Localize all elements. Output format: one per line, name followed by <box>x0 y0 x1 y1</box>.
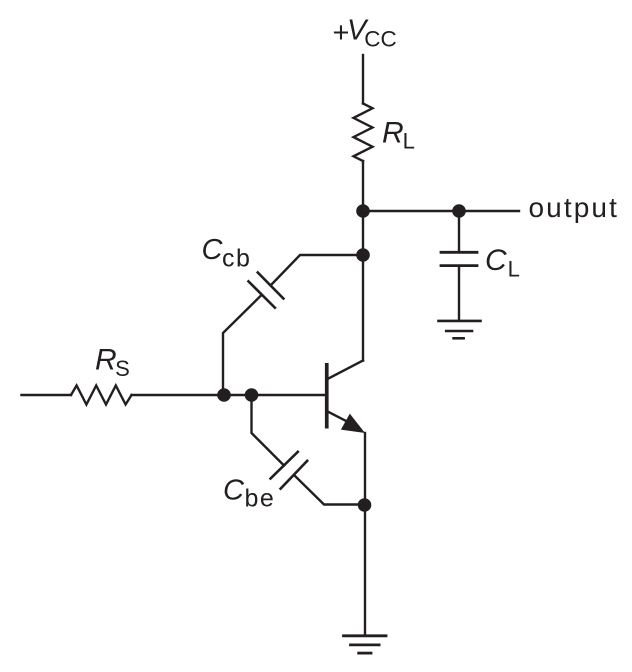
wire Ccb base side <box>223 295 262 395</box>
ground (CL) <box>439 321 481 338</box>
wire CL top <box>458 211 460 251</box>
capacitor Ccb <box>249 273 284 308</box>
capacitor Cbe <box>271 452 308 489</box>
node output junction <box>356 204 370 218</box>
capacitor CL <box>441 252 477 265</box>
label Cbe <box>223 474 275 512</box>
wire VCC to RL <box>362 55 364 104</box>
label RS <box>95 344 130 382</box>
svg-text:output: output <box>529 192 619 223</box>
wire RS to base <box>132 394 326 396</box>
node emitter junction <box>358 498 372 512</box>
wire Ccb collector side <box>271 255 363 285</box>
wire Cbe emitter side <box>294 475 365 505</box>
wire emitter <box>364 433 366 505</box>
label RL <box>382 116 415 153</box>
node Ccb junction <box>356 248 370 262</box>
node base 2 <box>245 388 259 402</box>
resistor RS <box>71 386 132 405</box>
power label +VCC <box>333 15 397 52</box>
label output <box>529 192 619 223</box>
label CL <box>485 244 520 282</box>
wire output <box>363 210 519 212</box>
label Ccb <box>202 234 252 273</box>
wire emitter to ground <box>364 505 366 635</box>
wire input <box>22 394 72 396</box>
wire CL to ground <box>458 267 460 320</box>
svg-text:Ccb: Ccb <box>202 234 252 273</box>
svg-text:RS: RS <box>95 344 130 382</box>
wire RL to output node <box>362 161 364 211</box>
ground (emitter) <box>344 636 387 653</box>
wire output node to Ccb node <box>362 211 364 255</box>
wire Cbe base side <box>252 395 285 466</box>
svg-text:RL: RL <box>382 116 415 153</box>
transistor Q1 <box>325 361 365 434</box>
node base 1 <box>217 388 231 402</box>
svg-text:Cbe: Cbe <box>223 474 275 512</box>
svg-text:+VCC: +VCC <box>333 15 397 52</box>
wire collector <box>362 255 364 361</box>
svg-text:CL: CL <box>485 244 520 282</box>
resistor RL <box>354 104 373 162</box>
node CL junction <box>452 204 466 218</box>
